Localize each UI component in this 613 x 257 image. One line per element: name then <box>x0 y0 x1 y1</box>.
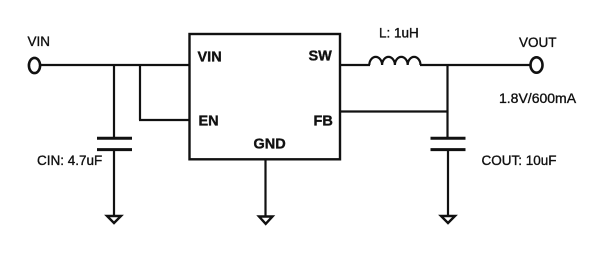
wire output node down to COUT (through FB tee) <box>446 64 448 138</box>
svg-text:VIN: VIN <box>28 34 51 49</box>
svg-text:GND: GND <box>254 137 286 153</box>
wire EN branch horizontal into EN pin <box>139 119 190 121</box>
svg-text:L: 1uH: L: 1uH <box>379 26 419 41</box>
svg-text:1.8V/600mA: 1.8V/600mA <box>499 90 577 106</box>
wire COUT to ground <box>447 151 449 216</box>
wire SW pin to inductor <box>340 64 370 66</box>
svg-text:VOUT: VOUT <box>519 35 557 50</box>
wire junction down to CIN <box>113 64 115 138</box>
wire GND pin to ground <box>264 159 266 216</box>
capacitor CIN plates <box>97 137 132 140</box>
svg-text:COUT: 10uF: COUT: 10uF <box>482 153 557 168</box>
wire CIN to ground <box>113 151 115 216</box>
ground symbol below CIN <box>107 216 121 223</box>
svg-text:FB: FB <box>314 114 333 130</box>
wire inductor to VOUT terminal <box>420 64 531 66</box>
svg-text:VIN: VIN <box>198 50 222 66</box>
ground symbol below GND pin <box>259 217 273 224</box>
terminal VOUT <box>531 57 543 72</box>
svg-text:CIN: 4.7uF: CIN: 4.7uF <box>37 153 102 168</box>
wire VIN terminal to IC VIN pin <box>41 64 190 66</box>
ground symbol below COUT <box>441 216 455 223</box>
wire EN branch vertical <box>139 64 141 120</box>
wire FB pin to output node <box>340 110 449 112</box>
IC buck regulator body <box>190 34 341 159</box>
terminal VIN <box>29 58 40 73</box>
capacitor COUT plates <box>431 137 466 140</box>
inductor L1 1uH <box>369 57 420 65</box>
svg-text:EN: EN <box>199 114 219 130</box>
svg-text:SW: SW <box>309 49 333 65</box>
